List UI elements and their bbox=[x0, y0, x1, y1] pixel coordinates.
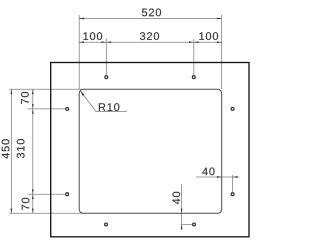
hole bottom-right bbox=[193, 223, 196, 226]
extension line left lower hole to 310/70 dimension bbox=[28, 193, 66, 195]
dimension line 450 bbox=[10, 89, 12, 213]
extension line left upper hole to 70/310 dimension bbox=[28, 108, 66, 110]
label 70 top bbox=[21, 92, 29, 104]
hole right-lower bbox=[231, 193, 234, 196]
cutout (rounded rectangle R10) bbox=[79, 89, 222, 213]
label 100 right bbox=[199, 32, 218, 40]
hole right-upper bbox=[231, 107, 234, 110]
label 70 bottom bbox=[22, 198, 30, 210]
plate outline bbox=[51, 63, 249, 237]
label 40 bottom bbox=[172, 192, 180, 204]
hole left-lower bbox=[66, 193, 69, 196]
label 310 bbox=[17, 139, 25, 158]
label R10 bbox=[99, 103, 119, 111]
extension line cutout-right up to top dimensions bbox=[221, 15, 223, 89]
dimension line 100/320/100 bbox=[79, 41, 222, 43]
leader line R10 bbox=[80, 91, 127, 112]
extension line cutout-left up to top dimensions bbox=[78, 15, 80, 89]
label 520 bbox=[142, 9, 161, 17]
dimension line 40 bottom (vertical) bbox=[181, 184, 183, 229]
extension line bottom-right hole to vertical 40 dimension bbox=[182, 224, 193, 226]
dimension line 70/310/70 bbox=[32, 89, 34, 213]
extension line cutout-top left to 450/70 dimensions bbox=[9, 88, 83, 90]
hole left-upper bbox=[66, 107, 69, 110]
label 450 bbox=[2, 139, 10, 158]
hole top-right bbox=[192, 76, 195, 79]
extension line cutout-bottom left to 450/70 dimensions bbox=[9, 212, 83, 214]
dimension line 520 bbox=[79, 18, 222, 20]
extension line right lower hole up to 40 dimension bbox=[232, 175, 234, 192]
extension line top-right hole up to 320/100 dimension bbox=[193, 39, 195, 75]
hole bottom-left bbox=[105, 223, 108, 226]
dimension line 40 right bbox=[196, 176, 239, 178]
label 320 bbox=[140, 32, 159, 40]
extension line top-left hole up to 100/320 dimension bbox=[105, 39, 107, 75]
label 40 right bbox=[202, 168, 214, 176]
hole top-left bbox=[105, 76, 108, 79]
label 100 left bbox=[83, 32, 102, 40]
